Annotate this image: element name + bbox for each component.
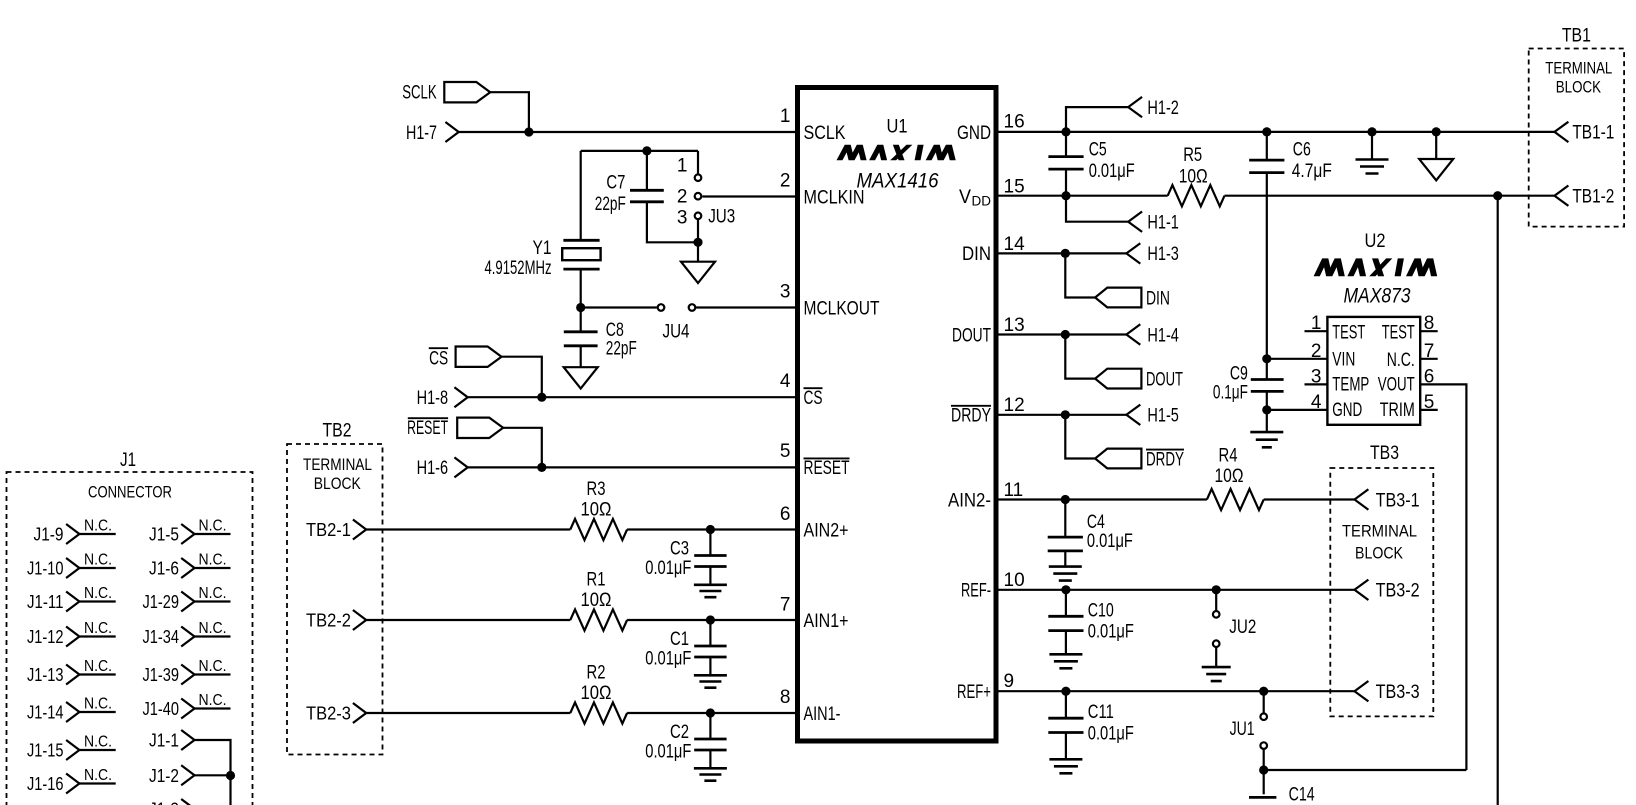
svg-text:TB1-1: TB1-1 <box>1572 123 1614 144</box>
svg-text:RESET: RESET <box>407 418 448 439</box>
svg-text:J1-15: J1-15 <box>27 740 64 761</box>
tag CS <box>456 347 502 367</box>
junction GND/C6 <box>1262 127 1271 136</box>
wire crystal bottom lead <box>580 269 582 307</box>
svg-text:15: 15 <box>1004 176 1025 197</box>
pin arrow H1-7 <box>445 122 458 142</box>
svg-text:DRDY: DRDY <box>951 406 991 427</box>
pin arrow H1-3 <box>1126 243 1140 263</box>
wire CS tag down <box>502 357 542 398</box>
svg-text:RESET: RESET <box>804 458 850 479</box>
svg-text:N.C.: N.C. <box>199 692 227 709</box>
junction JU1/C14/VOUT <box>1259 765 1268 774</box>
svg-text:4.9152MHz: 4.9152MHz <box>485 258 552 279</box>
svg-text:C9: C9 <box>1230 363 1248 384</box>
svg-text:TEST: TEST <box>1332 323 1365 344</box>
junction C7 top <box>642 146 651 155</box>
wire H1-6 to U1 RESET <box>468 466 795 468</box>
junction Y1/C8/JU4 <box>576 303 585 312</box>
svg-text:0.01μF: 0.01μF <box>1087 531 1133 552</box>
svg-text:8: 8 <box>1424 313 1435 334</box>
svg-text:N.C.: N.C. <box>84 620 112 637</box>
junction REF-/C10 <box>1061 585 1070 594</box>
junction REF-/JU2 <box>1212 585 1221 594</box>
svg-text:JU4: JU4 <box>663 322 690 343</box>
svg-text:2: 2 <box>1311 341 1322 362</box>
svg-text:TB3: TB3 <box>1370 443 1399 464</box>
svg-text:R4: R4 <box>1219 446 1238 467</box>
IC U1 MAX1416 body <box>798 88 997 742</box>
wire C10 top lead <box>1065 590 1067 617</box>
svg-text:REF-: REF- <box>961 581 991 602</box>
terminal arrow TB1-1 <box>1555 122 1569 142</box>
svg-text:N.C.: N.C. <box>84 734 112 751</box>
MAXIM logo (U1) <box>837 145 956 160</box>
svg-text:1: 1 <box>780 106 791 127</box>
svg-text:10Ω: 10Ω <box>1179 166 1208 187</box>
wire J1-2 stub <box>195 774 231 776</box>
svg-text:BLOCK: BLOCK <box>314 475 361 493</box>
svg-text:0.1μF: 0.1μF <box>1213 382 1248 403</box>
wire C6 top lead <box>1266 132 1268 160</box>
svg-text:R3: R3 <box>587 479 606 500</box>
terminal arrow TB3-2 <box>1355 580 1369 600</box>
ground (triangle) below C8 <box>564 367 598 388</box>
junction VDD/C5/H1-1 <box>1061 191 1070 200</box>
svg-text:H1-2: H1-2 <box>1147 98 1179 119</box>
svg-text:J1-12: J1-12 <box>27 626 64 647</box>
svg-text:H1-4: H1-4 <box>1147 325 1179 346</box>
svg-text:3: 3 <box>1311 366 1322 387</box>
wire R2 to U1 <box>627 712 795 714</box>
svg-text:10Ω: 10Ω <box>581 500 612 521</box>
junction SCLK/H1-7 <box>524 127 533 136</box>
wire C3 to ground <box>709 567 711 585</box>
svg-text:J1-9: J1-9 <box>34 524 64 545</box>
svg-text:N.C.: N.C. <box>84 585 112 602</box>
svg-text:BLOCK: BLOCK <box>1556 78 1601 96</box>
wire C10 to ground <box>1065 631 1067 655</box>
wire crystal top lead <box>580 151 582 240</box>
svg-text:10Ω: 10Ω <box>581 683 612 704</box>
svg-text:J1-3: J1-3 <box>149 799 179 805</box>
svg-text:22pF: 22pF <box>606 338 637 359</box>
svg-text:N.C.: N.C. <box>199 658 227 675</box>
svg-text:J1-16: J1-16 <box>27 773 64 794</box>
capacitor C1 <box>694 646 726 657</box>
U2 pin 5 stub <box>1420 409 1438 411</box>
svg-text:10Ω: 10Ω <box>581 590 612 611</box>
svg-text:TB2: TB2 <box>323 420 352 441</box>
wire H1-8 to U1 CS <box>468 396 795 398</box>
svg-text:N.C.: N.C. <box>199 518 227 535</box>
wire JU4 to U1 MCLKOUT <box>696 306 795 308</box>
wire R1 to U1 <box>627 619 795 621</box>
svg-text:VIN: VIN <box>1332 349 1355 370</box>
svg-text:22pF: 22pF <box>595 194 626 215</box>
svg-text:4: 4 <box>1311 392 1322 413</box>
wire R5 to TB1-2 <box>1225 195 1555 197</box>
svg-text:0.01μF: 0.01μF <box>645 558 691 579</box>
ground (triangle) below JU3 <box>681 262 715 283</box>
svg-text:C14: C14 <box>1289 784 1315 805</box>
tag DOUT <box>1095 369 1141 389</box>
svg-text:10Ω: 10Ω <box>1215 466 1244 487</box>
wire VDD down right edge (clipped) <box>1497 196 1499 805</box>
resistor R4 <box>1207 489 1264 510</box>
wire to DRDY tag <box>1065 415 1095 459</box>
svg-text:C7: C7 <box>606 173 625 194</box>
svg-text:2: 2 <box>677 186 688 207</box>
svg-text:TB3-1: TB3-1 <box>1376 490 1420 511</box>
svg-text:TB3-3: TB3-3 <box>1376 682 1420 703</box>
capacitor C11 <box>1048 718 1083 732</box>
svg-text:0.01μF: 0.01μF <box>1088 621 1134 642</box>
svg-text:J1-40: J1-40 <box>143 698 180 719</box>
connector J1 dashed outline <box>7 472 253 805</box>
MAXIM logo (U2) <box>1314 258 1438 276</box>
svg-text:J1-29: J1-29 <box>143 591 180 612</box>
svg-text:5: 5 <box>780 441 791 462</box>
U1 pin name DRDY (overline) <box>951 405 991 407</box>
junction GND/triangle gnd <box>1432 127 1441 136</box>
wire R3 to U1 <box>627 528 795 530</box>
svg-text:C1: C1 <box>670 629 689 650</box>
wire REF- pin10 to TB3-2 <box>999 589 1355 591</box>
wire U2 GND to ground <box>1266 410 1268 432</box>
wire C9 bottom lead <box>1266 391 1268 410</box>
junction DIN <box>1061 249 1070 258</box>
wire C6 to U2 VIN <box>1266 173 1268 359</box>
wire to JU4 <box>581 306 657 308</box>
svg-text:REF+: REF+ <box>957 682 991 703</box>
svg-text:GND: GND <box>957 123 991 144</box>
resistor R3 <box>570 519 627 540</box>
svg-text:TEMP: TEMP <box>1332 375 1369 396</box>
IC U2 MAX873 body <box>1327 317 1420 425</box>
svg-text:7: 7 <box>1424 341 1435 362</box>
svg-text:AIN1-: AIN1- <box>804 704 841 725</box>
svg-text:TERMINAL: TERMINAL <box>1545 59 1612 77</box>
pin arrow H1-2 <box>1128 97 1142 117</box>
svg-text:U1: U1 <box>887 116 908 137</box>
svg-text:J1-10: J1-10 <box>27 558 64 579</box>
svg-text:C5: C5 <box>1089 139 1107 160</box>
wire to ground JU3 <box>697 242 699 261</box>
svg-text:0.01μF: 0.01μF <box>645 648 691 669</box>
terminal arrow TB1-2 <box>1555 186 1569 206</box>
svg-text:H1-6: H1-6 <box>417 458 449 479</box>
svg-text:V: V <box>959 187 971 208</box>
wire to JU3 pin 1 <box>697 151 699 174</box>
svg-text:DIN: DIN <box>1146 288 1170 309</box>
capacitor C14 (clipped at bottom) <box>1249 796 1276 799</box>
junction DOUT <box>1061 330 1070 339</box>
svg-text:MAX1416: MAX1416 <box>857 170 939 193</box>
resistor R5 <box>1168 185 1225 206</box>
svg-text:CS: CS <box>804 388 823 409</box>
U2 pin 3 stub <box>1305 383 1328 385</box>
U2 pin 7 stub <box>1420 358 1438 360</box>
wire C7 top lead <box>646 151 648 190</box>
svg-text:C3: C3 <box>670 538 689 559</box>
svg-text:MCLKOUT: MCLKOUT <box>804 298 880 319</box>
jumper JU2 pin 1 <box>1213 611 1220 618</box>
terminal arrow TB3-1 <box>1355 489 1369 509</box>
wire SCLK tag to H1-7 line <box>490 92 529 132</box>
wire VDD pin15 to R5 <box>999 195 1168 197</box>
wire U2 pin 6 VOUT to C14 node <box>1420 384 1466 770</box>
wire REF+ pin9 to TB3-3 <box>999 690 1355 692</box>
capacitor C6 <box>1249 160 1284 173</box>
svg-text:N.C.: N.C. <box>84 658 112 675</box>
svg-text:TB1: TB1 <box>1562 25 1591 46</box>
wire GND net (pin16 to TB1-1) <box>999 131 1555 133</box>
junction node C3 <box>706 525 715 534</box>
ground (triangle) on GND net <box>1419 159 1453 180</box>
tag DIN <box>1095 288 1141 308</box>
svg-text:3: 3 <box>677 207 688 228</box>
svg-text:14: 14 <box>1004 234 1026 255</box>
svg-text:TB2-2: TB2-2 <box>306 610 351 631</box>
svg-text:AIN2+: AIN2+ <box>804 520 849 541</box>
svg-text:11: 11 <box>1004 480 1024 501</box>
label DRDY (overline) <box>1146 449 1184 451</box>
junction RESET/H1-6 <box>537 463 546 472</box>
ground below C4 <box>1049 567 1082 581</box>
svg-text:MAX873: MAX873 <box>1344 285 1411 308</box>
capacitor C9 <box>1251 380 1284 392</box>
wire to JU2 <box>1215 590 1217 611</box>
junction REF+/C11 <box>1061 687 1070 696</box>
pin arrow H1-8 <box>454 387 467 407</box>
wire TB2 to R2 <box>366 712 570 714</box>
svg-text:0.01μF: 0.01μF <box>1089 161 1135 182</box>
svg-text:DOUT: DOUT <box>952 325 991 346</box>
wire U2 pin 4 (GND) <box>1267 409 1328 411</box>
wire C9 top lead <box>1266 359 1268 380</box>
svg-text:N.C.: N.C. <box>84 767 112 784</box>
wire C4 top lead <box>1064 500 1066 538</box>
capacitor C3 <box>694 556 726 567</box>
svg-text:10: 10 <box>1004 570 1025 591</box>
svg-text:H1-3: H1-3 <box>1147 244 1179 265</box>
jumper JU3 pin 3 <box>695 213 702 220</box>
ground below C2 <box>694 768 727 780</box>
jumper JU3 pin 1 <box>695 174 702 181</box>
svg-text:DD: DD <box>972 193 992 208</box>
svg-text:C2: C2 <box>670 722 689 743</box>
svg-text:AIN1+: AIN1+ <box>804 611 849 632</box>
svg-text:AIN2-: AIN2- <box>948 490 991 511</box>
wire MCLK top <box>581 150 698 152</box>
svg-text:CONNECTOR: CONNECTOR <box>88 483 172 501</box>
junction node C2 <box>706 708 715 717</box>
svg-text:GND: GND <box>1332 400 1362 421</box>
svg-text:2: 2 <box>780 170 791 191</box>
svg-text:TB3-2: TB3-2 <box>1376 581 1420 602</box>
junction DRDY <box>1061 410 1070 419</box>
svg-text:TERMINAL: TERMINAL <box>1342 523 1417 541</box>
wire JU3 pin 3 down <box>697 220 699 243</box>
junction GND/C5 <box>1061 127 1070 136</box>
svg-text:J1-6: J1-6 <box>149 558 179 579</box>
svg-text:5: 5 <box>1424 392 1435 413</box>
svg-text:J1-5: J1-5 <box>149 524 179 545</box>
wire DOUT pin13 <box>999 333 1127 335</box>
svg-text:J1-1: J1-1 <box>149 730 179 751</box>
svg-text:1: 1 <box>1311 313 1322 334</box>
svg-text:U2: U2 <box>1365 231 1386 252</box>
junction J1 bus <box>226 771 235 780</box>
svg-text:N.C.: N.C. <box>84 552 112 569</box>
svg-text:6: 6 <box>780 504 791 525</box>
wire JU3 pin 2 to U1 MCLKIN <box>702 195 795 197</box>
ground below JU2 <box>1202 667 1231 681</box>
svg-text:J1-13: J1-13 <box>27 664 64 685</box>
svg-text:N.C.: N.C. <box>199 585 227 602</box>
wire to H1-2 <box>1066 107 1128 132</box>
label RESET (overline) <box>408 417 448 419</box>
U2 pin 1 stub <box>1305 330 1328 332</box>
wire C11 to ground <box>1065 733 1067 760</box>
svg-text:16: 16 <box>1004 111 1025 132</box>
jumper JU3 pin 2 <box>695 193 702 200</box>
wire C11 top lead <box>1065 691 1067 718</box>
wire C8 top lead <box>580 308 582 332</box>
wire H1-7 to U1 SCLK <box>459 131 795 133</box>
svg-text:N.C.: N.C. <box>84 518 112 535</box>
svg-text:J1-14: J1-14 <box>27 702 64 723</box>
pin arrow H1-4 <box>1126 324 1140 344</box>
junction VIN/C9 <box>1262 354 1271 363</box>
svg-text:N.C.: N.C. <box>84 696 112 713</box>
svg-text:1: 1 <box>677 155 688 176</box>
svg-text:JU3: JU3 <box>708 207 735 228</box>
svg-text:TB2-3: TB2-3 <box>306 703 351 724</box>
svg-text:J1-11: J1-11 <box>27 591 64 612</box>
svg-text:J1-39: J1-39 <box>143 664 180 685</box>
wire to DOUT tag <box>1065 335 1095 379</box>
tag SCLK <box>444 82 490 102</box>
svg-text:TEST: TEST <box>1382 323 1415 344</box>
wire to earth ground <box>1371 132 1373 160</box>
wire to C3 <box>709 530 711 556</box>
ground below C10 <box>1049 654 1082 668</box>
svg-text:DRDY: DRDY <box>1146 449 1184 470</box>
resistor R1 <box>570 609 627 630</box>
junction GND/earth <box>1367 127 1376 136</box>
wire JU2 to ground <box>1215 647 1217 667</box>
wire C5 top lead <box>1065 132 1067 157</box>
terminal block TB2 dashed outline <box>287 444 383 755</box>
crystal Y1 <box>563 240 599 269</box>
svg-text:0.01μF: 0.01μF <box>645 741 691 762</box>
wire C1 to ground <box>709 657 711 675</box>
jumper JU2 pin 2 <box>1213 640 1220 647</box>
svg-text:JU1: JU1 <box>1230 719 1255 740</box>
svg-text:N.C.: N.C. <box>199 552 227 569</box>
svg-text:R5: R5 <box>1183 145 1202 166</box>
svg-text:13: 13 <box>1004 315 1025 336</box>
terminal block TB1 dashed outline <box>1529 49 1624 227</box>
svg-text:DOUT: DOUT <box>1146 369 1183 390</box>
wire C4 to ground <box>1064 551 1066 567</box>
svg-text:C11: C11 <box>1088 702 1114 723</box>
wire to JU1 <box>1263 691 1265 713</box>
junction VDD/TB1-2 feed <box>1493 191 1502 200</box>
svg-text:MCLKIN: MCLKIN <box>804 187 865 208</box>
svg-text:H1-5: H1-5 <box>1147 406 1179 427</box>
svg-text:0.01μF: 0.01μF <box>1088 724 1134 745</box>
wire AIN2- pin11 to R4 <box>999 498 1207 500</box>
wire to triangle ground <box>1435 132 1437 159</box>
svg-text:SCLK: SCLK <box>402 83 437 104</box>
wire RESET tag down <box>503 428 542 468</box>
wire C2 to ground <box>709 750 711 768</box>
svg-text:H1-8: H1-8 <box>417 388 449 409</box>
wire to H1-1 <box>1066 196 1128 222</box>
svg-text:Y1: Y1 <box>533 238 552 259</box>
svg-text:J1: J1 <box>120 450 136 471</box>
wire TB2 to R1 <box>366 619 570 621</box>
capacitor C2 <box>694 739 726 750</box>
ground below U2 GND <box>1250 432 1283 447</box>
pin arrow H1-6 <box>454 457 467 477</box>
U1 pin name CS (overline) <box>804 387 823 389</box>
svg-text:J1-2: J1-2 <box>149 765 179 786</box>
svg-text:C4: C4 <box>1087 512 1105 533</box>
wire J1 bus down (clipped) <box>229 776 231 805</box>
wire JU1 down <box>1263 749 1265 770</box>
svg-text:9: 9 <box>1004 671 1015 692</box>
wire C14 top lead <box>1263 770 1265 794</box>
wire DIN pin14 <box>999 252 1127 254</box>
capacitor C10 <box>1048 616 1083 630</box>
svg-text:VOUT: VOUT <box>1378 375 1415 396</box>
svg-text:TRIM: TRIM <box>1380 400 1415 421</box>
junction U2 GND <box>1262 405 1271 414</box>
svg-text:J1-34: J1-34 <box>143 626 180 647</box>
jumper JU1 pin 2 <box>1260 742 1267 749</box>
ground below C3 <box>694 585 727 597</box>
U1 pin name RESET (overline) <box>804 457 850 459</box>
jumper JU1 pin 1 <box>1260 713 1267 720</box>
svg-text:CS: CS <box>429 348 448 369</box>
wire DRDY pin12 <box>999 414 1127 416</box>
svg-text:TB2-1: TB2-1 <box>306 519 351 540</box>
svg-text:3: 3 <box>780 281 791 302</box>
svg-text:6: 6 <box>1424 366 1435 387</box>
ground below C1 <box>694 675 727 687</box>
terminal arrow TB3-3 <box>1355 681 1369 701</box>
resistor R2 <box>570 702 627 723</box>
svg-text:BLOCK: BLOCK <box>1355 544 1403 562</box>
svg-text:H1-7: H1-7 <box>406 123 437 144</box>
svg-text:JU2: JU2 <box>1229 617 1256 638</box>
svg-text:TB1-2: TB1-2 <box>1572 187 1614 208</box>
capacitor C5 <box>1048 157 1083 170</box>
wire TB2 to R3 <box>366 528 570 530</box>
svg-text:4: 4 <box>780 371 791 392</box>
capacitor C8 <box>564 332 598 346</box>
U2 pin 8 stub <box>1420 330 1438 332</box>
wire to DIN tag <box>1065 253 1095 297</box>
svg-text:C10: C10 <box>1088 600 1114 621</box>
svg-text:DIN: DIN <box>962 244 991 265</box>
svg-text:SCLK: SCLK <box>804 123 846 144</box>
svg-text:TERMINAL: TERMINAL <box>303 456 372 474</box>
